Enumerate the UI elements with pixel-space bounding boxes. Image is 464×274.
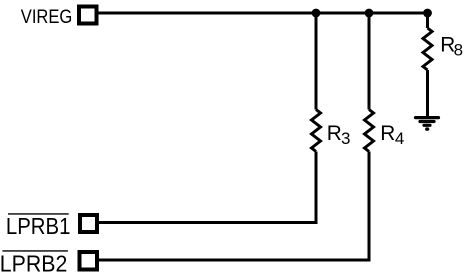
junction at R8 column: [423, 9, 432, 18]
svg-text:VIREG: VIREG: [21, 6, 73, 28]
wire R8 bottom lead: [426, 70, 429, 118]
wire VIREG rail: [99, 12, 428, 15]
wire LPRB1 to R3: [99, 152, 317, 223]
resistor R8: [423, 28, 432, 70]
wire LPRB2 to R4: [99, 152, 370, 261]
terminal VIREG pin: [79, 7, 97, 24]
svg-text:LPRB2: LPRB2: [0, 251, 67, 274]
node LPRB1: [6, 213, 71, 239]
wire R4 top lead: [368, 13, 371, 110]
svg-text:R: R: [380, 122, 395, 145]
resistor R4: [365, 110, 374, 152]
node VIREG: [21, 6, 73, 28]
resistor R4 value label: [380, 122, 404, 148]
svg-text:8: 8: [454, 41, 463, 60]
svg-text:R: R: [327, 122, 342, 145]
svg-text:LPRB1: LPRB1: [6, 213, 71, 239]
svg-text:3: 3: [341, 129, 350, 148]
resistor R8 value label: [440, 33, 463, 59]
resistor R3: [312, 110, 321, 152]
ground: [416, 118, 439, 130]
node LPRB2: [0, 251, 68, 274]
resistor R3 value label: [327, 122, 351, 148]
junction at R4 column: [365, 9, 374, 18]
wire R8 top lead: [426, 13, 429, 28]
junction at R3 column: [312, 9, 321, 18]
terminal LPRB1 pin: [80, 215, 97, 232]
terminal LPRB2 pin: [80, 252, 98, 270]
svg-text:4: 4: [395, 129, 404, 148]
wire R3 top lead: [315, 13, 318, 110]
